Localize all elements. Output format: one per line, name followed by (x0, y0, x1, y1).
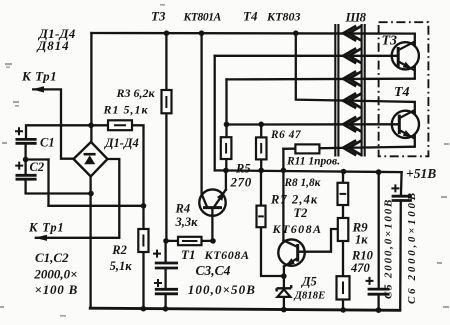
svg-text:С3,С4: С3,С4 (196, 263, 231, 278)
svg-text:270: 270 (230, 174, 252, 189)
svg-text:1к: 1к (355, 232, 368, 246)
svg-text:470: 470 (350, 261, 371, 275)
svg-text:Ш8: Ш8 (345, 9, 367, 24)
svg-text:КТ803: КТ803 (266, 9, 300, 23)
svg-text:Д1-Д4: Д1-Д4 (104, 136, 139, 150)
svg-text:Т3: Т3 (382, 33, 398, 48)
svg-text:С2: С2 (30, 160, 45, 174)
svg-text:К Тр1: К Тр1 (21, 69, 57, 84)
svg-text:R8 1,8к: R8 1,8к (284, 177, 321, 189)
svg-text:С1: С1 (40, 136, 55, 150)
svg-text:КТ608А: КТ608А (272, 222, 323, 236)
svg-text:Д5: Д5 (301, 275, 317, 289)
svg-text:КТ801А: КТ801А (183, 12, 222, 24)
svg-text:3,3к: 3,3к (175, 215, 199, 229)
svg-text:R4: R4 (175, 202, 191, 216)
svg-text:R5: R5 (235, 161, 251, 175)
svg-text:R1 5,1к: R1 5,1к (103, 103, 149, 117)
svg-text:100,0×50В: 100,0×50В (188, 282, 256, 297)
svg-text:Т4: Т4 (243, 8, 258, 23)
svg-text:К Тр1: К Тр1 (28, 221, 64, 235)
svg-text:Д818Е: Д818Е (294, 290, 326, 302)
svg-text:+51В: +51В (406, 166, 436, 181)
svg-text:2000,0×: 2000,0× (33, 266, 77, 281)
svg-text:С5 2000,0×100В: С5 2000,0×100В (383, 198, 395, 299)
svg-text:Т3: Т3 (151, 9, 166, 24)
svg-text:Т2: Т2 (294, 206, 308, 220)
svg-text:R7 2,4к: R7 2,4к (270, 192, 318, 206)
svg-text:R3 6,2к: R3 6,2к (116, 86, 156, 100)
svg-text:R2: R2 (111, 243, 127, 257)
svg-text:R11 1пров.: R11 1пров. (286, 156, 340, 168)
svg-text:R6 47: R6 47 (270, 129, 302, 141)
svg-text:Т1: Т1 (181, 247, 195, 262)
svg-text:Д814: Д814 (37, 38, 70, 53)
svg-text:5,1к: 5,1к (110, 259, 133, 273)
svg-text:КТ608А: КТ608А (204, 248, 250, 262)
svg-text:С6 2000,0×100В: С6 2000,0×100В (406, 190, 418, 304)
svg-text:С1,С2: С1,С2 (35, 250, 69, 265)
svg-text:×100 В: ×100 В (35, 282, 79, 297)
svg-text:Т4: Т4 (394, 85, 410, 100)
